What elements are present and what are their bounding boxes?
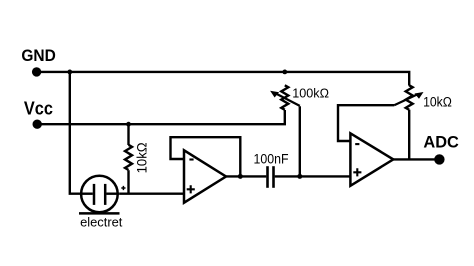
svg-text:electret: electret	[80, 214, 123, 229]
svg-text:10kΩ: 10kΩ	[133, 142, 149, 173]
svg-text:100kΩ: 100kΩ	[292, 86, 329, 101]
svg-text:GND: GND	[21, 46, 55, 65]
svg-text:ADC: ADC	[423, 134, 459, 152]
svg-text:Vcc: Vcc	[24, 99, 53, 119]
svg-text:10kΩ: 10kΩ	[423, 95, 452, 110]
svg-text:100nF: 100nF	[254, 151, 289, 167]
